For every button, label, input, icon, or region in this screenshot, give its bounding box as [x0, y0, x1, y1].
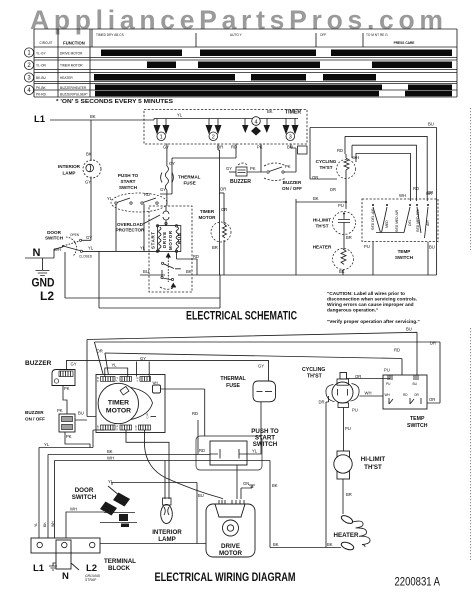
wire RD temp feed: [105, 353, 402, 375]
svg-text:3: 3: [27, 76, 31, 82]
svg-text:SWITCH: SWITCH: [72, 494, 97, 501]
svg-text:YL: YL: [107, 196, 113, 201]
svg-text:OFF: OFF: [320, 33, 326, 37]
svg-text:BK-BU: BK-BU: [36, 76, 46, 80]
svg-text:YL: YL: [88, 246, 94, 251]
svg-text:PK: PK: [64, 386, 70, 391]
svg-text:GY: GY: [140, 356, 146, 361]
svg-text:OR: OR: [220, 187, 226, 192]
svg-text:DR: DR: [330, 187, 336, 192]
svg-text:TO M NT RE G: TO M NT RE G: [366, 33, 388, 37]
svg-text:WH: WH: [51, 521, 55, 527]
wire run winding to timer motor: [177, 252, 198, 275]
svg-text:RD: RD: [394, 348, 400, 353]
svg-text:RUN: RUN: [177, 232, 182, 244]
svg-text:L1: L1: [33, 563, 45, 574]
svg-text:RD: RD: [199, 448, 205, 453]
svg-text:PU: PU: [345, 426, 351, 431]
svg-text:TIMER MOTOR: TIMER MOTOR: [60, 64, 83, 68]
svg-text:OR: OR: [429, 397, 435, 402]
svg-text:BR: BR: [212, 245, 218, 250]
wire on/off bottom: [65, 432, 90, 448]
svg-text:PROTECTOR: PROTECTOR: [116, 228, 145, 233]
wire WH line: [55, 461, 271, 548]
timer bottom terminals: [101, 425, 151, 430]
svg-text:DOOR: DOOR: [75, 487, 94, 494]
svg-text:BK: BK: [43, 522, 47, 527]
svg-text:HI-LIMIT: HI-LIMIT: [313, 218, 331, 223]
svg-text:BK: BK: [86, 152, 92, 157]
svg-text:BU: BU: [413, 382, 418, 386]
svg-text:SWITCH: SWITCH: [119, 185, 138, 190]
svg-text:L2: L2: [86, 563, 97, 574]
svg-text:PRESS CARE: PRESS CARE: [394, 41, 415, 45]
svg-text:OR: OR: [426, 191, 432, 196]
svg-text:BK: BK: [273, 542, 279, 547]
timer cam contact 3: [283, 125, 290, 135]
wire BK line: [48, 455, 210, 539]
wire OR vertical from contact 2: [218, 144, 220, 276]
svg-text:BUZZER: BUZZER: [25, 410, 44, 415]
wire buzzer to on/off: [63, 386, 87, 421]
svg-text:BK: BK: [272, 483, 278, 488]
svg-text:PU: PU: [364, 244, 370, 249]
svg-text:BU: BU: [143, 269, 149, 274]
wire loop 4 cycling WH to temp switch: [356, 154, 411, 202]
centrifugal switch: [166, 253, 171, 258]
svg-text:YL: YL: [252, 449, 258, 454]
svg-text:BU: BU: [287, 145, 293, 150]
svg-text:"CAUTION: Label all wires prio: "CAUTION: Label all wires prior to: [327, 291, 405, 297]
svg-text:TERMINAL: TERMINAL: [104, 558, 136, 565]
svg-text:THERMAL: THERMAL: [178, 175, 201, 180]
thermal fuse: [165, 166, 168, 190]
svg-text:BU: BU: [78, 411, 84, 416]
svg-text:WH: WH: [153, 381, 159, 385]
svg-text:START: START: [151, 231, 156, 249]
svg-text:2: 2: [27, 63, 31, 69]
connector block on BU wire: [298, 146, 308, 154]
svg-text:YL: YL: [108, 479, 114, 484]
svg-text:BR: BR: [346, 492, 352, 497]
svg-text:HEATER: HEATER: [60, 76, 73, 80]
timer dashed box: [144, 110, 307, 145]
svg-text:FUSE: FUSE: [184, 181, 196, 186]
svg-text:TIMED DRY AB CS: TIMED DRY AB CS: [96, 33, 124, 37]
svg-text:TIMER: TIMER: [108, 400, 129, 407]
interior lamp (wiring): [163, 498, 172, 505]
wire BU from contact 3: [284, 144, 296, 173]
svg-text:RD: RD: [337, 148, 343, 153]
svg-text:INTERIOR: INTERIOR: [58, 164, 81, 169]
svg-text:ON / OFF: ON / OFF: [25, 417, 45, 422]
svg-text:ELECTRICAL SCHEMATIC: ELECTRICAL SCHEMATIC: [186, 311, 297, 323]
svg-text:PU: PU: [384, 368, 390, 373]
svg-text:SWITCH: SWITCH: [253, 441, 278, 448]
svg-text:DEL: DEL: [408, 219, 412, 226]
ground strap symbol: [49, 563, 57, 570]
drive motor (wiring): [206, 504, 255, 557]
svg-text:K: K: [97, 379, 99, 383]
timer cam contact 2: [206, 125, 213, 135]
row separator lines: [34, 58, 457, 91]
caution text: [327, 291, 420, 325]
svg-text:DR: DR: [319, 400, 325, 405]
buzzer B1: [236, 167, 247, 176]
svg-text:ELECTRICAL WIRING DIAGRAM: ELECTRICAL WIRING DIAGRAM: [155, 570, 296, 584]
svg-text:TEMP: TEMP: [398, 249, 411, 254]
temp switch schematic dashed box: [362, 199, 438, 242]
svg-text:disconnection when servicing c: disconnection when servicing controls.: [327, 297, 417, 303]
svg-text:BU: BU: [428, 122, 434, 127]
svg-text:OR: OR: [97, 349, 103, 354]
svg-text:2: 2: [212, 135, 215, 141]
svg-text:DRIVE MOTOR: DRIVE MOTOR: [60, 52, 83, 56]
wire N to door switch: [66, 512, 104, 538]
timer motor circle with cam lobe: [131, 388, 153, 420]
svg-text:TH'ST: TH'ST: [319, 165, 332, 170]
svg-text:BU: BU: [198, 493, 204, 498]
wire OR second rail: [94, 342, 440, 403]
svg-text:BR: BR: [346, 235, 352, 240]
svg-text:YL: YL: [140, 246, 146, 251]
wire lamp to door switch: [90, 177, 92, 239]
svg-text:Wiring errors can cause improp: Wiring errors can cause improper and: [327, 302, 414, 308]
svg-text:GY: GY: [258, 364, 264, 369]
svg-text:ON / OFF: ON / OFF: [282, 186, 302, 191]
svg-text:DRIVE: DRIVE: [162, 231, 167, 248]
wire BU motor left: [140, 274, 165, 276]
svg-text:TH'ST: TH'ST: [307, 374, 323, 380]
wire timer tab3 to motor: [145, 430, 224, 499]
wire motor right BK: [178, 274, 437, 276]
wire YL net left column: [39, 368, 128, 538]
wire fuse bottom to push-start: [248, 402, 261, 454]
terminal block (wiring): [31, 538, 100, 553]
svg-text:BK: BK: [90, 114, 96, 119]
svg-text:SWITCH: SWITCH: [407, 423, 428, 429]
wire YL door to motor: [83, 204, 158, 251]
svg-text:BUZZER/PULSER*: BUZZER/PULSER*: [60, 93, 88, 97]
svg-text:U: U: [135, 428, 137, 432]
svg-text:GY: GY: [226, 166, 232, 171]
svg-text:YL: YL: [44, 442, 50, 447]
svg-text:2200831 A: 2200831 A: [395, 577, 441, 589]
wire L2 rail: [65, 251, 220, 308]
svg-text:4: 4: [254, 119, 257, 125]
svg-text:N: N: [33, 247, 41, 259]
svg-text:RED MED AIR: RED MED AIR: [395, 209, 399, 232]
wire loop 2 RD: [345, 136, 427, 201]
svg-text:YL: YL: [112, 363, 118, 368]
svg-text:MED: MED: [385, 220, 389, 228]
svg-text:PK-BK: PK-BK: [36, 86, 46, 90]
svg-text:THERMAL: THERMAL: [220, 376, 246, 382]
svg-text:U: U: [147, 416, 149, 420]
circled row numbers: [24, 48, 33, 95]
svg-text:PU: PU: [352, 408, 358, 413]
svg-text:BUZZER: BUZZER: [230, 179, 251, 185]
wire PK to buzzer: [247, 144, 266, 173]
svg-text:HEATER: HEATER: [334, 532, 360, 539]
svg-text:PK: PK: [66, 434, 72, 439]
svg-text:INTERIOR: INTERIOR: [152, 529, 182, 536]
svg-text:BK: BK: [107, 449, 113, 454]
hi-limit thermostat (wiring): [337, 451, 350, 479]
svg-text:OVERLOAD: OVERLOAD: [117, 222, 144, 227]
svg-text:PK: PK: [250, 166, 256, 171]
svg-text:dangerous operation.": dangerous operation.": [327, 308, 378, 314]
svg-text:WH: WH: [365, 391, 372, 396]
svg-text:CLOSED: CLOSED: [79, 255, 93, 259]
svg-text:TH'ST: TH'ST: [364, 464, 382, 471]
box around heater chain: [295, 199, 297, 275]
temp switch bottom wires: [373, 242, 428, 275]
svg-text:CIRCUIT: CIRCUIT: [40, 41, 53, 45]
svg-text:RD: RD: [193, 254, 199, 259]
svg-text:STRAP: STRAP: [85, 578, 97, 582]
wire open contact to lamp: [82, 238, 91, 240]
svg-text:HEATER: HEATER: [313, 245, 332, 250]
svg-text:BUZZER: BUZZER: [25, 360, 52, 367]
svg-text:MOTOR: MOTOR: [168, 230, 173, 250]
wire GN ground at motor: [241, 485, 255, 499]
svg-text:N: N: [62, 571, 69, 582]
wire BU top rail: [87, 332, 417, 416]
wire DR rail down left of heater: [326, 396, 329, 548]
svg-text:PK: PK: [285, 164, 291, 169]
svg-text:BLOCK: BLOCK: [108, 565, 131, 572]
svg-text:AUTO Y: AUTO Y: [230, 33, 243, 37]
wire hi-limit to heater: [342, 479, 344, 514]
svg-text:YL-GY: YL-GY: [36, 52, 46, 56]
timer cam contact 4: [252, 117, 261, 126]
svg-text:BU: BU: [406, 327, 412, 332]
BU terminal tick: [147, 413, 149, 420]
svg-text:BK: BK: [327, 542, 333, 547]
svg-text:BU: BU: [429, 245, 435, 250]
wire right outer loop BU: [310, 128, 437, 276]
svg-text:CYCLING: CYCLING: [302, 367, 325, 373]
svg-text:HI-LIMIT: HI-LIMIT: [361, 456, 386, 463]
svg-text:PUSH TO: PUSH TO: [118, 173, 139, 178]
svg-text:K: K: [117, 428, 119, 432]
page edge line: [470, 108, 472, 560]
wire L1 rail: [50, 119, 146, 121]
svg-text:3: 3: [289, 135, 292, 141]
svg-text:PU: PU: [386, 382, 391, 386]
timer top terminals: [101, 377, 151, 382]
overload protector: [163, 206, 169, 226]
svg-text:TEMP: TEMP: [410, 416, 425, 422]
svg-text:YL-OR: YL-OR: [36, 64, 46, 68]
wire BK horizontal to PU junction: [296, 201, 346, 203]
wire timer internal top: [146, 119, 298, 126]
svg-text:DR: DR: [430, 341, 436, 346]
svg-text:FUSE: FUSE: [226, 383, 240, 389]
svg-text:TH'ST: TH'ST: [315, 224, 328, 229]
vertical labels left column: [34, 521, 55, 527]
svg-text:WH: WH: [70, 507, 77, 512]
svg-text:Y: Y: [137, 379, 139, 383]
svg-text:BK: BK: [186, 269, 192, 274]
wire cycling WH to temp: [360, 395, 384, 397]
svg-text:LAMP: LAMP: [62, 171, 75, 176]
wire BK motor to heater bottom: [270, 547, 341, 549]
temp switch (wiring): [383, 375, 427, 409]
svg-text:TIMER: TIMER: [285, 110, 301, 116]
svg-text:MOTOR: MOTOR: [106, 408, 131, 415]
thermal fuse wire: [166, 144, 168, 207]
ground: [36, 258, 50, 276]
svg-text:GY: GY: [71, 362, 77, 367]
svg-text:OR: OR: [221, 207, 227, 212]
svg-text:DRIVE: DRIVE: [221, 543, 240, 550]
interior lamp: [90, 120, 92, 161]
svg-text:SWITCH: SWITCH: [395, 255, 414, 260]
svg-text:L1: L1: [34, 114, 46, 125]
hi-limit thermostat schematic: [345, 185, 347, 209]
svg-text:OPEN: OPEN: [70, 233, 80, 237]
svg-text:U: U: [97, 428, 99, 432]
svg-text:YL: YL: [177, 113, 183, 118]
timing chart table frame: [34, 29, 457, 97]
wire push-start to motor: [236, 465, 238, 499]
svg-text:BK: BK: [313, 196, 319, 201]
svg-text:1: 1: [160, 135, 163, 141]
svg-text:GND: GND: [32, 276, 55, 290]
svg-text:TIMER: TIMER: [200, 209, 215, 214]
svg-text:WH: WH: [107, 456, 114, 461]
wire cycling PU down to hi-limit: [343, 408, 345, 452]
buzzer on/off switch: [267, 171, 269, 173]
wire cycling OR to temp PU: [347, 375, 391, 379]
wire GY buzzer to thermal fuse: [67, 360, 269, 381]
svg-text:RD: RD: [192, 411, 198, 416]
svg-text:OR: OR: [312, 175, 318, 180]
heater (wiring): [340, 514, 354, 525]
svg-text:FUNCTION: FUNCTION: [63, 41, 85, 46]
svg-text:WH: WH: [385, 393, 391, 397]
svg-text:MOTOR: MOTOR: [198, 215, 216, 220]
svg-text:PU: PU: [338, 203, 344, 208]
svg-text:L2: L2: [40, 289, 54, 303]
svg-text:PK-RD: PK-RD: [36, 93, 47, 97]
svg-text:WH: WH: [399, 193, 406, 198]
wire WH to push-start area: [161, 389, 205, 436]
header cycle labels: [92, 29, 363, 47]
svg-text:DOOR: DOOR: [47, 230, 61, 235]
svg-text:BK: BK: [267, 109, 273, 114]
svg-text:PK: PK: [257, 145, 263, 150]
svg-text:OR: OR: [414, 393, 419, 397]
timer cam contact 1: [154, 125, 161, 135]
svg-text:"Verify proper operation after: "Verify proper operation after servicing…: [327, 319, 420, 325]
svg-text:CYCLING: CYCLING: [316, 159, 337, 164]
wire RD from contact 2 right: [160, 144, 236, 195]
svg-text:GN: GN: [243, 481, 249, 486]
svg-text:MOTOR: MOTOR: [219, 550, 242, 557]
svg-text:RD: RD: [403, 393, 408, 397]
svg-text:GY: GY: [163, 145, 169, 150]
motor windings: [158, 226, 181, 252]
svg-text:1: 1: [27, 51, 31, 57]
svg-text:YL: YL: [34, 523, 38, 527]
svg-text:BUZZER: BUZZER: [283, 180, 302, 185]
svg-text:4: 4: [27, 88, 31, 94]
wire loop 3: [352, 145, 416, 201]
timer box (wiring): [96, 375, 165, 433]
svg-text:GY: GY: [85, 180, 91, 185]
cycling thermostat schematic: [337, 160, 356, 179]
wire L2 to drive motor: [100, 543, 206, 545]
svg-text:RD: RD: [144, 192, 150, 197]
svg-text:* 'ON' 5 SECONDS EVERY 5 MINUT: * 'ON' 5 SECONDS EVERY 5 MINUTES: [56, 99, 174, 105]
svg-text:SWITCH: SWITCH: [45, 236, 64, 241]
heater schematic: [343, 235, 345, 250]
svg-text:START: START: [121, 179, 136, 184]
wire timer tab2 to lamp: [126, 430, 169, 499]
svg-text:WH: WH: [352, 155, 359, 160]
svg-text:LAMP: LAMP: [158, 536, 176, 543]
svg-text:BK: BK: [339, 269, 345, 274]
svg-text:BUZZER/HEATER: BUZZER/HEATER: [60, 86, 87, 90]
svg-text:PK: PK: [57, 408, 63, 413]
drive motor dashed box: [149, 206, 192, 292]
